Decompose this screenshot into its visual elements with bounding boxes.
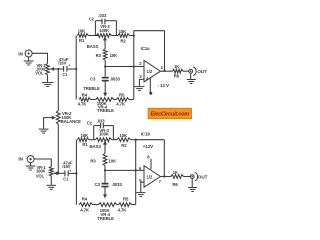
svg-text:.033: .033 [97, 118, 106, 123]
svg-text:R4: R4 [82, 93, 88, 98]
svg-text:IN: IN [18, 157, 23, 162]
svg-text:IN: IN [18, 51, 23, 56]
svg-text:10K: 10K [109, 158, 118, 163]
svg-text:10K: 10K [78, 29, 87, 34]
svg-text:R2: R2 [120, 38, 126, 43]
svg-text:1/2: 1/2 [147, 69, 153, 74]
svg-text:ElecCircuit.com: ElecCircuit.com [151, 112, 190, 118]
svg-text:IC1a: IC1a [141, 46, 151, 51]
svg-text:4.7K: 4.7K [116, 101, 126, 106]
svg-text:IC1b: IC1b [141, 131, 151, 136]
svg-text:4.7K: 4.7K [78, 101, 88, 106]
svg-text:TREBLE: TREBLE [97, 108, 114, 113]
svg-text:10K: 10K [81, 133, 90, 138]
svg-text:R6: R6 [172, 182, 178, 187]
svg-text:R5: R5 [119, 93, 125, 98]
svg-text:C2: C2 [87, 120, 93, 125]
svg-text:100K: 100K [99, 132, 110, 137]
svg-text:C3: C3 [95, 182, 101, 187]
svg-text:.0033: .0033 [112, 182, 123, 187]
svg-text:VOL: VOL [36, 174, 45, 179]
svg-text:TREBLE: TREBLE [83, 86, 100, 91]
svg-text:OUT: OUT [198, 174, 208, 179]
svg-text:BALANCE: BALANCE [61, 119, 82, 124]
svg-text:4.7K: 4.7K [118, 208, 128, 213]
svg-text:/16V: /16V [62, 164, 70, 169]
svg-text:C2: C2 [89, 17, 95, 22]
svg-text:1/2: 1/2 [147, 175, 153, 180]
svg-text:C3: C3 [90, 77, 96, 82]
svg-text:10K: 10K [110, 53, 119, 58]
svg-text:10K: 10K [119, 29, 128, 34]
svg-text:100K: 100K [99, 28, 110, 33]
svg-text:R3: R3 [96, 53, 102, 58]
svg-text:OUT: OUT [197, 69, 207, 74]
svg-text:TREBLE: TREBLE [97, 216, 114, 221]
svg-text:+12V: +12V [143, 144, 153, 149]
svg-text:.0033: .0033 [110, 77, 121, 82]
svg-text:4.7K: 4.7K [80, 208, 90, 213]
svg-text:R4: R4 [82, 197, 88, 202]
svg-text:BASS: BASS [90, 144, 102, 149]
svg-text:.033: .033 [98, 13, 107, 18]
svg-text:C1: C1 [63, 176, 69, 181]
svg-text:VOL: VOL [35, 71, 44, 76]
svg-text:R5: R5 [123, 197, 129, 202]
svg-text:BASS: BASS [87, 44, 99, 49]
svg-text:- 12 V: - 12 V [158, 83, 170, 88]
svg-text:C1: C1 [62, 72, 68, 77]
svg-text:10K: 10K [119, 133, 128, 138]
svg-text:R3: R3 [90, 158, 96, 163]
svg-text:R2: R2 [121, 143, 127, 148]
svg-text:R1: R1 [79, 38, 85, 43]
svg-text:/16V: /16V [58, 61, 66, 66]
svg-text:R1: R1 [82, 142, 88, 147]
svg-text:R6: R6 [174, 73, 180, 78]
